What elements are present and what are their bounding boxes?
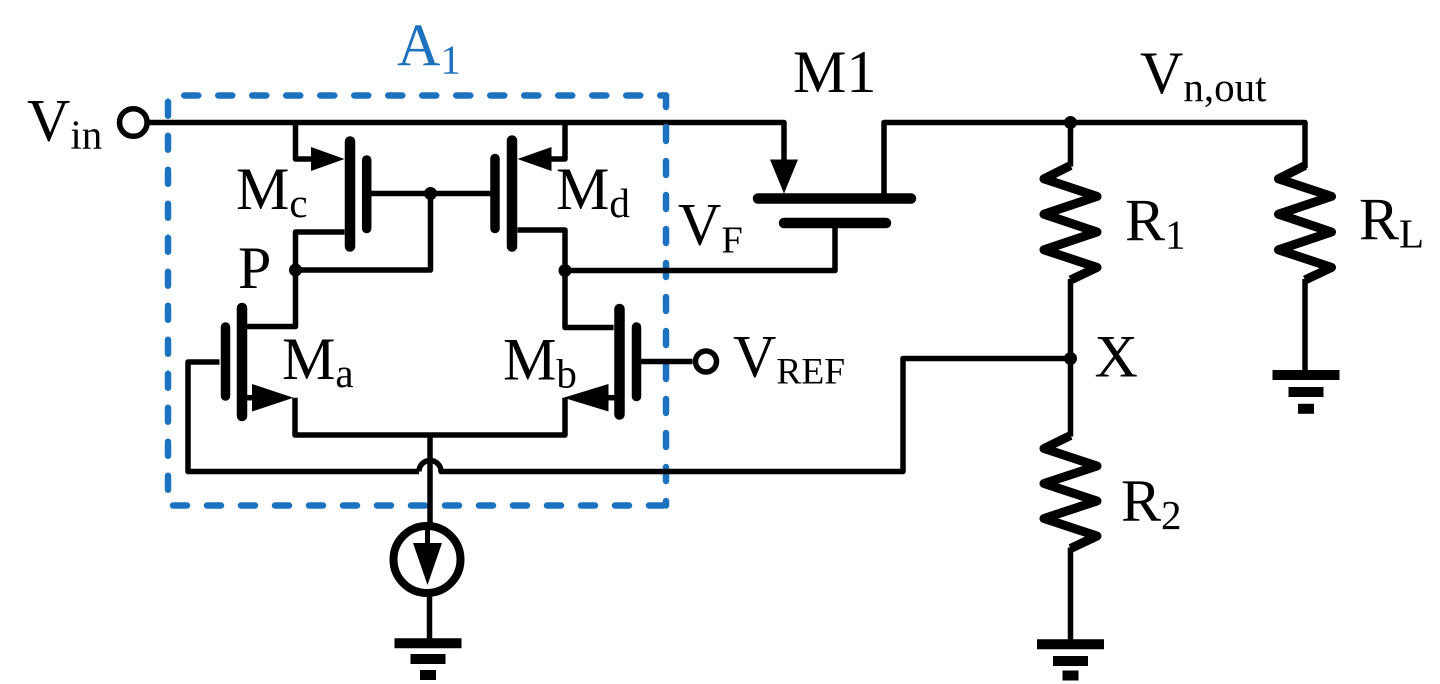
ground under current source [395, 643, 462, 675]
svg-text:X: X [1095, 324, 1138, 390]
wire R2 top lead [1068, 359, 1074, 437]
label Md [556, 156, 630, 226]
wire Mb gate lead [641, 359, 693, 365]
svg-text:R2: R2 [1121, 468, 1182, 538]
node gate junction dot [424, 187, 437, 200]
Ma gate bar [221, 327, 231, 396]
svg-text:Md: Md [556, 156, 630, 226]
R2 zigzag [1044, 436, 1097, 549]
resistor RL [1279, 166, 1332, 373]
transistor M1 [758, 160, 911, 224]
wire gate down to P line [296, 194, 431, 271]
wire Mb source stub [608, 395, 615, 401]
wire R1 top lead [1068, 123, 1074, 167]
M1 channel bar [758, 193, 911, 204]
arrow Mc source [311, 147, 345, 171]
arrow Mb source [564, 384, 609, 412]
wire Mc source drop [296, 123, 321, 160]
svg-text:A1: A1 [397, 13, 461, 83]
svg-text:Vn,out: Vn,out [1140, 40, 1267, 110]
svg-text:Mc: Mc [236, 156, 308, 226]
M1 gate bar [784, 218, 886, 229]
label M1 [793, 39, 876, 105]
label X [1095, 324, 1138, 390]
wire Md source drop [542, 123, 565, 160]
transistor Mb [430, 271, 693, 436]
node VF dot [559, 264, 572, 277]
label Vin [27, 88, 102, 158]
wire Md drain [518, 230, 566, 271]
wire tail vertical [427, 435, 433, 526]
label P [238, 235, 271, 301]
node Vn,out dot [1064, 116, 1077, 129]
dashed box A1 [168, 96, 666, 506]
terminal VREF circle [696, 351, 717, 372]
svg-text:P: P [238, 235, 271, 301]
Mc gate bar [362, 160, 372, 229]
wire Mb drain [565, 271, 614, 328]
wire gate link Mc-Md [369, 191, 491, 197]
label R2 [1121, 468, 1182, 538]
label Mc [236, 156, 308, 226]
wire Mb source [430, 398, 565, 435]
R1 zigzag [1044, 166, 1097, 281]
label Ma [282, 326, 354, 396]
resistor R2 [1044, 359, 1097, 646]
wire feedback with hop [419, 359, 1071, 472]
svg-text:R1: R1 [1125, 188, 1186, 258]
arrow Ma source [252, 384, 294, 412]
wire I1 to ground [427, 592, 433, 644]
svg-text:RL: RL [1359, 187, 1424, 257]
label Vn,out [1140, 40, 1267, 110]
Mb channel bar [614, 309, 625, 415]
label RL [1359, 187, 1424, 257]
label VF [678, 192, 743, 262]
label A1 [397, 13, 461, 83]
Mc channel bar [345, 142, 356, 247]
I1 circle [394, 526, 461, 593]
wire Ma drain [247, 270, 296, 327]
transistor Md [495, 123, 565, 271]
wire Vin rail right segment (M1 drain to RL) [884, 123, 1305, 197]
wire VF to M1 gate [565, 223, 835, 271]
I1 arrow [425, 530, 430, 548]
wire R2 bottom lead [1068, 548, 1074, 646]
svg-text:M1: M1 [793, 39, 876, 105]
wire Ma source [295, 398, 430, 435]
ground under R2 [1037, 644, 1104, 675]
Ma channel bar [237, 308, 248, 416]
RL zigzag [1279, 166, 1332, 281]
arrow M1 source [770, 160, 798, 194]
svg-text:VREF: VREF [733, 324, 845, 393]
svg-text:Ma: Ma [282, 326, 354, 396]
wire RL bottom lead [1302, 279, 1308, 372]
wire Ma source stub [246, 395, 253, 401]
label R1 [1125, 188, 1186, 258]
node X dot [1064, 352, 1077, 365]
wire Ma gate lead [188, 362, 419, 472]
svg-text:VF: VF [678, 192, 743, 262]
current source I1 [394, 526, 461, 644]
resistor R1 [1044, 123, 1097, 359]
ground under RL [1273, 375, 1340, 409]
arrow Md source [518, 147, 552, 171]
node P dot [289, 264, 302, 277]
transistor Ma [188, 270, 430, 472]
wire R1 bottom lead [1068, 279, 1074, 359]
transistor Mc [296, 123, 367, 271]
label VREF [733, 324, 845, 393]
label Mb [503, 327, 577, 397]
svg-text:Mb: Mb [503, 327, 577, 397]
Md gate bar [490, 159, 500, 229]
terminal Vin circle [120, 109, 148, 137]
Mb gate bar [632, 327, 642, 397]
wire Mc drain [296, 232, 345, 270]
Md channel bar [507, 141, 518, 247]
svg-text:Vin: Vin [27, 88, 102, 158]
wire Vin rail left segment [147, 123, 784, 163]
